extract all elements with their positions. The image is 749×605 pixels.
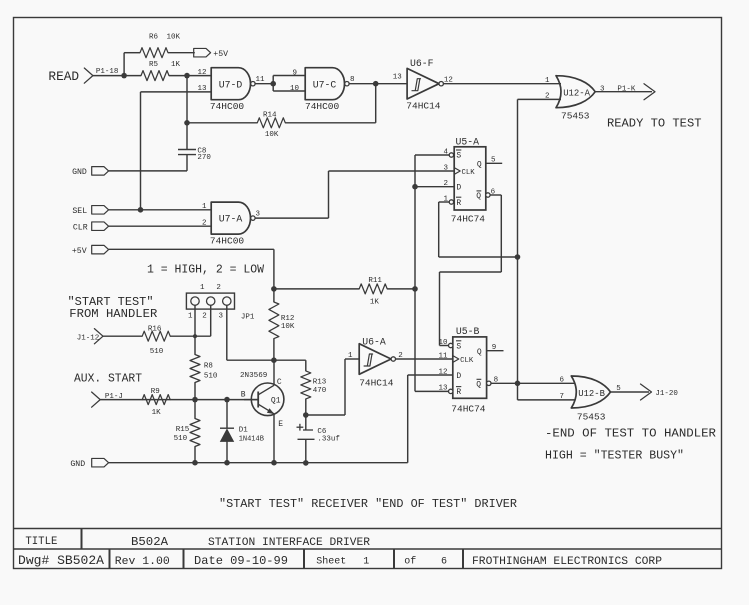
svg-text:6: 6 xyxy=(491,188,496,196)
svg-text:74HC00: 74HC00 xyxy=(210,101,245,112)
svg-text:R15: R15 xyxy=(176,426,190,434)
svg-text:13: 13 xyxy=(438,385,448,393)
svg-text:U6-A: U6-A xyxy=(362,336,386,347)
svg-text:READY TO TEST: READY TO TEST xyxy=(607,117,702,131)
svg-text:510: 510 xyxy=(150,348,164,356)
svg-text:S: S xyxy=(456,342,461,351)
svg-text:13: 13 xyxy=(393,74,403,82)
svg-text:R13: R13 xyxy=(313,379,327,387)
svg-text:of: of xyxy=(404,556,416,568)
svg-text:12: 12 xyxy=(438,368,447,376)
svg-text:HIGH = "TESTER BUSY": HIGH = "TESTER BUSY" xyxy=(545,448,684,462)
svg-text:U12-A: U12-A xyxy=(563,88,590,98)
svg-text:TITLE: TITLE xyxy=(25,536,57,548)
svg-text:74HC74: 74HC74 xyxy=(451,214,486,225)
svg-text:U7-C: U7-C xyxy=(313,79,337,90)
svg-text:C: C xyxy=(277,378,282,387)
svg-text:GND: GND xyxy=(70,460,85,469)
svg-text:Rev 1.00: Rev 1.00 xyxy=(115,556,170,568)
svg-text:1K: 1K xyxy=(171,61,181,69)
svg-text:10K: 10K xyxy=(167,34,181,42)
svg-text:1: 1 xyxy=(348,352,353,360)
svg-text:P1-K: P1-K xyxy=(617,85,636,93)
svg-text:B502A: B502A xyxy=(131,536,168,549)
svg-text:R16: R16 xyxy=(148,325,162,333)
svg-text:1N414B: 1N414B xyxy=(239,435,264,443)
svg-text:10K: 10K xyxy=(281,323,295,331)
svg-text:2N3569: 2N3569 xyxy=(240,372,268,380)
svg-text:U6-F: U6-F xyxy=(410,58,434,69)
svg-text:+5V: +5V xyxy=(213,50,228,59)
svg-text:U7-D: U7-D xyxy=(219,79,243,90)
svg-text:270: 270 xyxy=(197,154,211,162)
svg-text:510: 510 xyxy=(174,435,188,443)
svg-text:Sheet: Sheet xyxy=(316,556,346,568)
svg-text:.33uf: .33uf xyxy=(317,436,340,444)
svg-text:CLK: CLK xyxy=(460,357,474,365)
svg-text:470: 470 xyxy=(313,387,327,395)
svg-text:AUX. START: AUX. START xyxy=(74,371,142,385)
svg-text:11: 11 xyxy=(438,352,448,360)
svg-text:J1-12: J1-12 xyxy=(77,334,100,342)
svg-text:U12-B: U12-B xyxy=(578,389,605,399)
svg-text:R5: R5 xyxy=(149,61,159,69)
svg-text:R9: R9 xyxy=(151,388,160,396)
svg-text:Dwg# SB502A: Dwg# SB502A xyxy=(18,553,104,568)
svg-text:U5-B: U5-B xyxy=(456,326,480,337)
svg-text:74HC74: 74HC74 xyxy=(451,404,486,415)
svg-text:1: 1 xyxy=(545,77,550,85)
svg-text:Q1: Q1 xyxy=(271,397,281,406)
svg-text:R: R xyxy=(456,388,461,397)
svg-text:JP1: JP1 xyxy=(241,314,255,322)
svg-text:J1-20: J1-20 xyxy=(655,390,678,398)
svg-text:74HC14: 74HC14 xyxy=(359,378,394,389)
svg-text:10: 10 xyxy=(290,85,300,93)
svg-text:1: 1 xyxy=(363,557,369,568)
svg-text:2: 2 xyxy=(202,219,207,227)
svg-text:Date 09-10-99: Date 09-10-99 xyxy=(194,554,288,568)
svg-text:"START TEST" RECEIVER "END OF: "START TEST" RECEIVER "END OF TEST" DRIV… xyxy=(219,497,517,511)
svg-text:1: 1 xyxy=(188,313,193,321)
svg-text:E: E xyxy=(278,420,283,429)
svg-text:D: D xyxy=(456,372,461,381)
svg-text:8: 8 xyxy=(494,376,499,384)
svg-text:3: 3 xyxy=(219,313,224,321)
svg-text:D: D xyxy=(456,184,461,193)
svg-text:1: 1 xyxy=(202,203,207,211)
svg-text:2: 2 xyxy=(216,284,221,292)
svg-text:1K: 1K xyxy=(370,299,380,307)
svg-text:7: 7 xyxy=(559,393,564,401)
svg-text:STATION INTERFACE DRIVER: STATION INTERFACE DRIVER xyxy=(208,537,370,549)
svg-text:READ: READ xyxy=(48,69,79,84)
svg-text:3: 3 xyxy=(600,85,605,93)
svg-text:R11: R11 xyxy=(368,277,382,285)
svg-text:Q: Q xyxy=(477,348,482,357)
svg-text:Q: Q xyxy=(476,192,481,201)
svg-text:R: R xyxy=(456,199,461,208)
svg-text:1: 1 xyxy=(443,195,448,203)
svg-text:-END OF TEST TO HANDLER: -END OF TEST TO HANDLER xyxy=(545,426,717,440)
svg-text:9: 9 xyxy=(292,70,297,78)
svg-text:74HC00: 74HC00 xyxy=(210,236,245,247)
svg-text:B: B xyxy=(241,390,246,399)
svg-text:CLR: CLR xyxy=(73,223,88,232)
svg-text:Q: Q xyxy=(477,161,482,170)
svg-text:1: 1 xyxy=(200,284,205,292)
svg-text:2: 2 xyxy=(443,180,448,188)
svg-text:5: 5 xyxy=(491,157,496,165)
svg-text:74HC00: 74HC00 xyxy=(305,101,340,112)
svg-text:CLK: CLK xyxy=(462,169,476,177)
svg-text:2: 2 xyxy=(202,313,207,321)
svg-text:FROTHINGHAM ELECTRONICS CORP: FROTHINGHAM ELECTRONICS CORP xyxy=(472,556,662,568)
svg-text:74HC14: 74HC14 xyxy=(406,100,441,111)
svg-text:6: 6 xyxy=(441,557,447,568)
svg-text:GND: GND xyxy=(72,168,87,177)
svg-text:4: 4 xyxy=(443,148,448,156)
svg-text:R12: R12 xyxy=(281,315,295,323)
svg-text:6: 6 xyxy=(559,377,564,385)
svg-text:75453: 75453 xyxy=(561,110,590,121)
svg-text:1K: 1K xyxy=(152,409,162,417)
svg-text:3: 3 xyxy=(443,164,448,172)
svg-text:75453: 75453 xyxy=(577,411,606,422)
svg-text:9: 9 xyxy=(492,344,497,352)
svg-text:R14: R14 xyxy=(263,112,277,120)
svg-text:10: 10 xyxy=(438,339,448,347)
svg-text:SEL: SEL xyxy=(72,207,87,216)
svg-text:Q: Q xyxy=(476,380,481,389)
svg-text:U5-A: U5-A xyxy=(456,136,480,147)
svg-text:5: 5 xyxy=(616,385,621,393)
svg-text:R6: R6 xyxy=(149,34,159,42)
svg-text:+5V: +5V xyxy=(72,247,87,256)
svg-text:12: 12 xyxy=(197,69,206,77)
svg-text:U7-A: U7-A xyxy=(219,214,243,225)
svg-text:R8: R8 xyxy=(204,363,213,371)
svg-text:1 = HIGH, 2 = LOW: 1 = HIGH, 2 = LOW xyxy=(147,263,265,277)
svg-text:10K: 10K xyxy=(265,131,279,139)
svg-text:510: 510 xyxy=(204,373,218,381)
svg-text:S: S xyxy=(456,152,461,161)
svg-text:D1: D1 xyxy=(239,427,249,435)
svg-text:FROM HANDLER: FROM HANDLER xyxy=(69,308,157,321)
